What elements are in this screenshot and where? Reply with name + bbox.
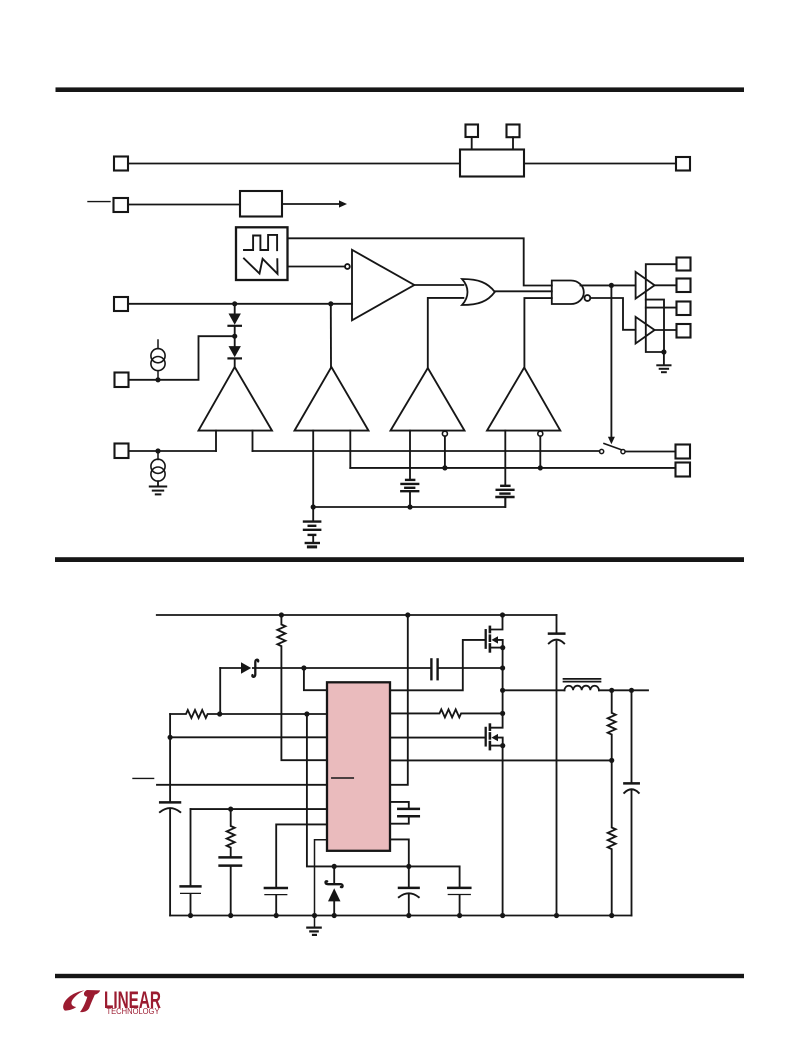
wire driver supply v1 through buffers	[646, 264, 677, 352]
node dot R7 branch	[228, 807, 233, 812]
capacitor C10 (end of ground line)	[459, 866, 461, 886]
wire comp3 apex riser to OR gate input 2	[428, 298, 464, 368]
node dot on left vertical	[168, 735, 173, 740]
node dot comp2 apex riser	[328, 301, 333, 306]
node dot SW junction	[500, 688, 505, 693]
diode D1 of chain	[234, 306, 236, 313]
battery B3 stack with ground under comp2	[312, 507, 314, 521]
wire ground-sense jog with capacitor C7	[276, 824, 327, 886]
wire bus2 comp2 right leg to pin box B6	[350, 467, 675, 469]
comparator A4	[487, 368, 560, 431]
op-amp U5 PWM comparator	[352, 250, 414, 320]
node dot Q2 source at rail	[500, 913, 505, 918]
wire buffer U9 output to pin box B4	[655, 329, 677, 331]
node dot current source I1 tap	[155, 377, 160, 382]
battery B1 under comp3	[406, 479, 414, 481]
node dot C5 at rail	[188, 913, 193, 918]
pin box P1 top-left	[114, 157, 128, 171]
node dot Q1 source	[500, 645, 505, 650]
wire oscillator top output to gate U6 input 1	[288, 238, 552, 285]
node dot comp4 bubble leg on bus2	[538, 465, 543, 470]
wire Q2 source to power ground rail	[502, 746, 504, 916]
pin box B4	[677, 324, 691, 338]
wire U3 output with arrowhead	[282, 203, 342, 205]
node dot Q2 source	[500, 743, 505, 748]
pin box P4	[115, 373, 129, 388]
transistor Q2 bottom MOSFET	[491, 713, 503, 727]
wire C5 branch line to IC	[191, 808, 328, 810]
bubble on gate U6 lower output	[585, 295, 591, 301]
comparator A3	[391, 368, 465, 431]
wire P4 to diode-chain jog	[129, 336, 235, 380]
node dot zener at rail	[332, 913, 337, 918]
ground below drivers	[663, 352, 665, 365]
ground under current source I2	[150, 486, 166, 488]
node dot jog on ground line	[406, 864, 411, 869]
wire pin P3 line to PWM comparator non-inverting input	[128, 303, 352, 305]
block U2 (top block with two top pins)	[460, 150, 524, 177]
page bottom rule	[55, 974, 744, 978]
node dot driver ground	[661, 349, 666, 354]
wire P5 to comp1 left leg	[129, 450, 217, 452]
IC U1 (controller, shaded)	[327, 682, 390, 851]
capacitor C1 input cap (polarized)	[556, 615, 558, 632]
node dot diode-chain top	[232, 301, 237, 306]
node dot C9 at rail	[406, 913, 411, 918]
wire ITH/run line (left, with overline)	[133, 777, 154, 779]
svg-text:TECHNOLOGY: TECHNOLOGY	[107, 1006, 160, 1016]
diode D4 (schottky to ground line)	[333, 866, 335, 883]
node dot SGND at rail	[312, 913, 317, 918]
wire gate U6 upper output to buffer U8	[581, 284, 636, 286]
inverting bubble on PWM comparator	[345, 264, 350, 269]
pin box B6	[676, 463, 691, 477]
node dot FB junction	[609, 758, 614, 763]
switch S1 contacts	[600, 449, 604, 453]
node dot current source I2 tap	[155, 448, 160, 453]
wire VIN branch vertical to IC VIN pin	[390, 615, 408, 785]
page top rule	[56, 87, 745, 92]
diode D3 (INTVCC to boost) line	[219, 668, 221, 714]
resistor R7 with capacitor C6 in series	[227, 809, 235, 856]
pin box P8 on top of U2	[507, 125, 520, 138]
wire P2 to delay block	[128, 204, 240, 206]
current source I2	[157, 453, 159, 460]
wire RC filter line to IC	[170, 710, 327, 718]
node dot R6 at rail	[609, 913, 614, 918]
wire comp4 apex riser to gate U6 input 3	[524, 298, 551, 367]
buffer U9 lower driver	[636, 317, 655, 344]
capacitor C8 (between adjacent IC pins)	[390, 802, 409, 808]
capacitor C2 boost cap	[430, 659, 432, 679]
pin box P3	[114, 297, 128, 311]
node dot COUT top	[629, 688, 634, 693]
node dot diode branch on RC line	[217, 711, 222, 716]
node dot Q1 drain	[500, 612, 505, 617]
pin box B5	[676, 445, 691, 459]
wire buffer U8 output to pin box B2	[655, 284, 677, 286]
overline mark inside U1	[332, 777, 354, 779]
page middle rule	[55, 557, 744, 562]
node dot C6 at rail	[228, 913, 233, 918]
node dot CIN at rail	[554, 913, 559, 918]
node dot zener top	[332, 864, 337, 869]
overline mark at P2	[88, 201, 110, 203]
wire IC right-bottom jog to signal ground line	[390, 839, 409, 866]
square wave glyph inside U4	[244, 235, 277, 250]
node dot VIN branch	[405, 612, 410, 617]
capacitor C3 output cap (polarized)	[631, 690, 633, 782]
block U3 (delay block)	[240, 191, 282, 217]
wire v1 branch to v2	[646, 300, 664, 352]
comparator A1	[199, 367, 273, 431]
pin box P6 top-right	[676, 157, 690, 171]
wire VIN top rail	[157, 614, 557, 616]
Linear Technology logo	[63, 986, 161, 1016]
wire boost jog to IC pin	[304, 668, 327, 690]
pin box P7 on top of U2	[466, 125, 479, 138]
wire bus1 comp1 right leg to switch	[253, 450, 600, 452]
wire left vertical with capacitor C4 (polarized)	[169, 714, 171, 801]
transistor Q1 top MOSFET	[485, 630, 487, 648]
or-gate U7	[462, 279, 495, 305]
pin box P5	[115, 444, 129, 459]
pin box B2	[677, 279, 691, 293]
wire power ground bottom rail	[170, 915, 631, 917]
wire IC TG pin to Q1 gate	[390, 640, 485, 690]
node dot boost cap to SW	[500, 665, 505, 670]
wire IC SGND pin jog to rail and earth	[315, 840, 328, 927]
gate U6 (AND-shape with complement output bubble)	[552, 281, 584, 305]
wire gate U6 bubble output to buffer U9	[590, 298, 635, 330]
earth ground symbol below rail	[307, 926, 320, 928]
wire IC FB pin to divider	[390, 759, 612, 761]
node dot sense at SW	[500, 711, 505, 716]
pin box P2	[114, 198, 129, 212]
comparator A2	[295, 367, 369, 431]
buffer U8 upper driver	[636, 272, 655, 299]
node dot R5 divider top	[609, 688, 614, 693]
inductor L1	[565, 686, 599, 691]
oscillator box U4	[236, 227, 288, 280]
wire pin box B3 line	[646, 307, 677, 309]
resistor R5 (divider top)	[608, 690, 616, 760]
node dot between diodes	[232, 334, 237, 339]
wire VOUT line	[599, 689, 648, 691]
wire switch control vertical with arrowhead	[610, 285, 612, 437]
wire PWM comparator output to OR gate	[414, 284, 463, 286]
stub P7 to U2	[471, 137, 473, 150]
node dot boost junction	[301, 665, 306, 670]
node dot switch control branch	[609, 283, 614, 288]
node dot C10 at rail	[457, 913, 462, 918]
wire IC sense pin through R4 to SW	[390, 709, 503, 717]
wire oscillator bottom output to PWM comparator inverting input	[288, 266, 345, 268]
resistor R3 (pull-up from VIN)	[277, 615, 327, 760]
wire switch to pin box B5	[625, 451, 675, 453]
wire SW to inductor	[503, 689, 565, 691]
diode D2 of chain	[234, 338, 236, 346]
wire OR gate output to gate U6 input 2	[495, 290, 552, 292]
stub P8 to U2	[512, 137, 514, 149]
capacitor C9 (polarized, on ground line)	[408, 866, 410, 886]
pin box B3	[677, 302, 691, 316]
node dot battery B1 bottom	[407, 504, 412, 509]
switch S1 lever	[604, 444, 621, 450]
wire reference ground rail	[313, 498, 505, 507]
resistor R6 (divider bottom)	[608, 760, 616, 915]
comp2 apex riser	[330, 304, 332, 367]
pin box B1	[677, 258, 691, 271]
current source I1	[157, 340, 159, 349]
node dot thick branch on RC line	[304, 711, 309, 716]
wire P1 to oscillator block	[128, 163, 460, 165]
wire U2 to pin box P6	[524, 163, 676, 165]
wire SW node vertical	[502, 648, 504, 714]
battery B2 under comp4	[501, 485, 509, 487]
sawtooth glyph inside U4	[244, 259, 278, 274]
wire soft-start line to IC	[170, 736, 327, 738]
wire thick branch vertical to signal ground line	[307, 714, 460, 866]
node dot comp3 bubble leg on bus2	[442, 465, 447, 470]
node dot R3 top	[279, 612, 284, 617]
capacitor C5	[190, 809, 192, 885]
node dot battery B3 stack	[311, 504, 316, 509]
node dot C7 at rail	[274, 913, 279, 918]
